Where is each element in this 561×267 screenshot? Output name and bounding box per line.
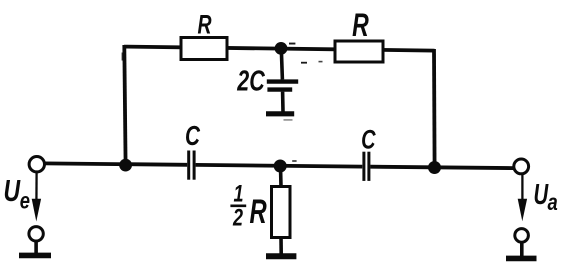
arrow Ua (down) — [518, 175, 527, 222]
terminal lower right (open circle) — [515, 229, 529, 243]
capacitor 2C — [267, 49, 298, 112]
wire below R3 — [279, 238, 283, 254]
wire stub to ground right — [520, 242, 524, 256]
svg-text:R: R — [250, 193, 267, 231]
node junction dot left — [119, 159, 132, 172]
svg-text:e: e — [20, 188, 30, 213]
resistor R1 (left top) — [181, 38, 227, 60]
arrow Ue (down) — [32, 173, 41, 222]
wire left vertical — [124, 45, 125, 165]
ground (right) — [506, 256, 537, 262]
node junction dot right — [428, 161, 441, 174]
svg-text:R: R — [197, 9, 211, 39]
capacitor C (left) — [189, 151, 194, 180]
terminal lower left (open circle) — [29, 227, 43, 241]
svg-text:2: 2 — [232, 205, 243, 231]
svg-text:2C: 2C — [236, 65, 265, 97]
ground (below R3) — [266, 253, 296, 259]
wire from middle dot to resistor R3 — [279, 166, 283, 187]
svg-text:R: R — [352, 7, 369, 43]
svg-text:U: U — [4, 172, 22, 207]
terminal Ua (output, open circle) — [514, 159, 529, 174]
resistor R3 (1/2 R vertical) — [272, 187, 291, 238]
svg-text:1: 1 — [233, 181, 243, 207]
node junction dot middle — [274, 160, 287, 173]
resistor R2 (right top) — [335, 41, 383, 62]
wire middle rail segment 2 — [196, 165, 363, 167]
wire middle rail segment 1 — [44, 163, 187, 164]
wire stub to ground left — [34, 241, 38, 253]
svg-text:U: U — [534, 178, 549, 210]
label Ua — [534, 178, 558, 215]
capacitor C (right) — [364, 152, 369, 181]
svg-text:C: C — [361, 124, 376, 155]
svg-text:a: a — [548, 190, 558, 215]
wire right vertical — [432, 49, 436, 168]
terminal Ue (input, open circle) — [29, 157, 44, 172]
ground (below 2C) — [266, 111, 294, 116]
label Ue — [4, 172, 31, 213]
wire top rail — [124, 47, 435, 51]
wire middle rail segment 3 — [370, 167, 514, 168]
ground (left) — [19, 253, 51, 259]
node junction dot top (R1-R2) — [275, 42, 288, 55]
svg-text:C: C — [185, 121, 201, 152]
label 1/2 R (fraction) — [230, 181, 266, 231]
